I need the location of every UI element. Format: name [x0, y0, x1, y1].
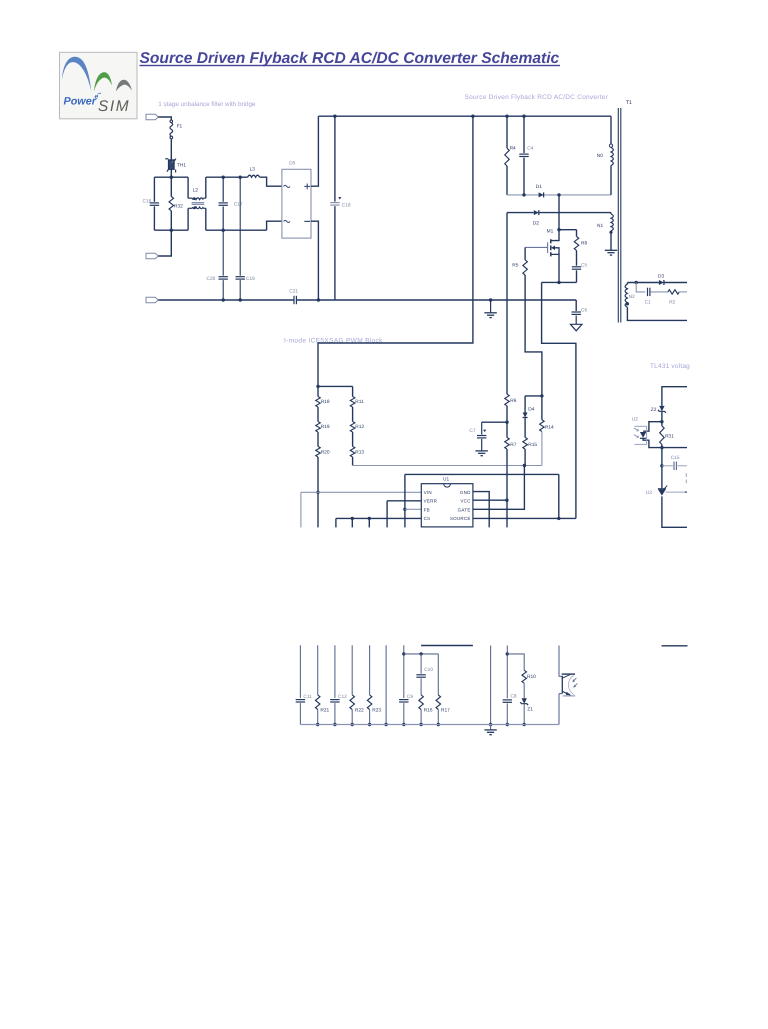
wire left-loop right edge segments — [187, 177, 189, 198]
svg-text:R11: R11 — [355, 399, 364, 405]
node C4 bottom — [522, 193, 525, 196]
wire R31 node clipped right — [662, 447, 687, 449]
node R4 top — [505, 115, 508, 118]
svg-text:SOURCE: SOURCE — [450, 516, 471, 521]
wire earth rail left of C21 — [158, 299, 293, 301]
wire C20 column — [222, 230, 224, 276]
svg-text:N1: N1 — [597, 223, 603, 229]
svg-text:D5: D5 — [289, 160, 295, 166]
svg-text:R13: R13 — [355, 450, 364, 456]
node bottom ground — [489, 723, 492, 726]
node divider top — [316, 385, 319, 388]
wire C20 to earth rail — [222, 280, 224, 300]
svg-text:R17: R17 — [441, 707, 450, 713]
wire earth rail right of C21 — [297, 299, 577, 301]
svg-text:CS: CS — [424, 516, 431, 521]
wire R2 clipped — [679, 291, 687, 293]
svg-text:1 stage unbalance filter with: 1 stage unbalance filter with bridge — [158, 101, 256, 108]
wire D4 top link — [525, 395, 542, 397]
wire left-loop top rail — [154, 176, 188, 178]
wire column GND to rail — [490, 646, 492, 725]
svg-text:C12: C12 — [338, 694, 347, 700]
shunt regulator U3 TL431 — [658, 488, 666, 490]
svg-text:C1: C1 — [645, 300, 651, 306]
wire VIN net left drop — [300, 492, 302, 527]
svg-text:M1: M1 — [547, 228, 554, 234]
wire bottom rail — [300, 724, 559, 726]
wire VIN net horizontal — [301, 491, 421, 493]
svg-text:U2: U2 — [632, 417, 638, 423]
capacitor C20 — [219, 276, 228, 278]
resistor R31 — [661, 422, 663, 426]
wire GATE pin — [473, 466, 525, 510]
svg-text:R16: R16 — [424, 707, 433, 713]
zener Z1 — [522, 698, 527, 703]
capacitor C12 — [330, 699, 339, 701]
wire GND pin — [473, 492, 489, 528]
optocoupler U4 transistor side — [558, 646, 560, 677]
svg-text:D1: D1 — [536, 184, 542, 190]
svg-text:GND: GND — [460, 490, 471, 495]
node C4 top — [522, 115, 525, 118]
ground symbol C7 — [476, 450, 488, 452]
svg-text:VERR: VERR — [424, 499, 438, 504]
svg-text:VIN: VIN — [424, 490, 432, 495]
svg-text:R8: R8 — [581, 241, 587, 247]
svg-text:D3: D3 — [658, 274, 664, 280]
phase dot N2 — [626, 302, 629, 305]
svg-text:GATE: GATE — [458, 507, 471, 512]
node C17 top — [222, 176, 225, 179]
node L3 left — [239, 176, 242, 179]
wire bridge plus output to top rail — [311, 116, 318, 186]
capacitor C8 — [503, 699, 512, 701]
gate lead wire — [525, 246, 548, 248]
svg-text:U3: U3 — [646, 490, 652, 496]
wire SOURCE pin — [473, 517, 576, 519]
capacitor C6 — [572, 311, 581, 313]
capacitor C5 — [576, 250, 578, 265]
svg-text:C15: C15 — [671, 455, 680, 461]
wire C19 to earth rail — [239, 280, 241, 300]
winding N2 — [626, 283, 628, 285]
resistor R32 — [170, 177, 172, 196]
wire snubber branch — [636, 283, 645, 292]
ground symbol primary — [490, 300, 492, 313]
resistor R5 gate — [524, 247, 526, 259]
resistor R2 — [668, 290, 679, 294]
node C7 junction — [505, 421, 508, 424]
wire U3 ref clipped — [666, 491, 686, 493]
clipped component marks — [685, 473, 687, 483]
node C10 top — [419, 652, 422, 655]
inductor L3 — [248, 175, 260, 177]
connector J2 neutral input — [146, 253, 158, 259]
wire R20 to VIN node — [317, 457, 319, 492]
wire left-loop bottom rail — [154, 229, 188, 231]
svg-text:TL431 voltag: TL431 voltag — [650, 363, 690, 370]
node ground stub on earth rail — [489, 298, 492, 301]
node on SOURCE wire — [557, 517, 560, 520]
svg-text:C4: C4 — [527, 145, 533, 151]
node filter bottom-left — [170, 229, 173, 232]
resistor R4 — [506, 116, 508, 148]
capacitor C21 in series — [293, 296, 295, 304]
wire bridge minus output to earth rail — [311, 221, 318, 300]
resistor R17 — [437, 654, 439, 695]
wire down to C15 node — [661, 448, 663, 489]
svg-text:C10: C10 — [424, 667, 433, 673]
capacitor C15 — [662, 465, 673, 467]
title underline — [140, 65, 561, 66]
svg-text:C5: C5 — [581, 263, 587, 269]
resistor R22 — [350, 695, 355, 710]
dark link wire above bottom section — [421, 645, 473, 647]
resistor R6 — [505, 394, 510, 406]
svg-text:U1: U1 — [443, 477, 449, 483]
zener Z2 — [659, 406, 664, 411]
wire DC top rail — [318, 115, 611, 117]
ground symbol bottom — [490, 725, 492, 730]
wire FB right drop to source rail — [558, 474, 560, 518]
capacitor C7 — [481, 422, 483, 434]
svg-text:D2: D2 — [533, 220, 539, 226]
svg-text:R18: R18 — [321, 399, 330, 405]
node FB — [403, 508, 406, 511]
resistor R14 — [541, 396, 543, 420]
capacitor C9 — [399, 699, 408, 701]
resistor R11 — [352, 386, 354, 396]
resistor R13 — [352, 432, 354, 446]
svg-text:N2: N2 — [629, 294, 635, 300]
resistor R21 — [315, 695, 320, 710]
node C15 — [660, 464, 663, 467]
wire J1 to F1 — [158, 117, 171, 120]
wire TL431 top clipped — [662, 387, 687, 406]
logo box PowerEsim — [60, 52, 138, 119]
svg-text:C11: C11 — [303, 694, 312, 700]
svg-text:C21: C21 — [289, 289, 298, 295]
capacitor C1 — [647, 288, 649, 296]
resistor R15 — [524, 418, 526, 437]
wire right-loop bottom rail — [206, 229, 267, 231]
fuse F1 — [170, 120, 173, 123]
capacitor C16 — [150, 202, 159, 204]
logo gray arc — [116, 80, 132, 92]
wire column R22 — [351, 645, 353, 695]
wire source node horizontal — [542, 281, 577, 283]
svg-text:R31: R31 — [665, 434, 674, 440]
svg-text:R6: R6 — [510, 398, 516, 404]
thermistor TH1 — [169, 160, 175, 169]
diode D3 — [659, 280, 664, 285]
node M1 source — [557, 281, 560, 284]
wire drain vertical — [558, 195, 560, 230]
PWM controller U1 — [421, 484, 473, 527]
resistor R19 — [317, 407, 319, 422]
svg-text:R2: R2 — [669, 300, 675, 306]
wire J2 to left loop — [158, 230, 171, 256]
node CS col2 — [368, 517, 371, 520]
node C18 top — [333, 115, 336, 118]
node drain feed on clamp rail — [557, 193, 560, 196]
svg-text:R32: R32 — [174, 204, 183, 210]
mosfet M1 — [551, 230, 559, 241]
node VCC — [505, 499, 508, 502]
svg-text:N0: N0 — [597, 153, 603, 159]
connector J1 line input — [146, 114, 158, 120]
svg-text:T1: T1 — [626, 100, 632, 106]
svg-text:C8: C8 — [510, 693, 516, 699]
node filter top-left — [170, 176, 173, 179]
svg-text:R10: R10 — [527, 674, 536, 680]
wire D2 anode from R6 column — [507, 212, 534, 214]
winding N1 — [610, 213, 612, 214]
wire bridge ac2 — [267, 221, 282, 230]
capacitor C4 — [523, 116, 525, 153]
resistor R16 — [420, 678, 422, 695]
wire earth rail corner down to C6 — [575, 300, 577, 311]
node Z2 bottom — [660, 420, 663, 423]
ground symbol N1 — [605, 249, 617, 251]
wire clipped link top right of bottom section — [662, 645, 688, 647]
svg-text:TH1: TH1 — [177, 162, 186, 168]
capacitor C17 — [222, 177, 224, 202]
wire column VCC/C8 — [506, 646, 508, 699]
wire left-loop left edge upper — [153, 177, 155, 202]
wire R15 to feedback rail — [524, 449, 526, 465]
svg-text:D4: D4 — [528, 406, 534, 412]
svg-text:Z1: Z1 — [527, 707, 533, 713]
wire VIN feed from top rail — [318, 116, 473, 386]
wire left-loop left edge lower — [153, 206, 155, 230]
wire column R21 — [317, 645, 319, 695]
wire R20 column continues to gap — [317, 492, 319, 527]
transformer T1 core — [617, 108, 619, 323]
resistor R23 — [367, 695, 372, 710]
wire C10 R17 header — [404, 653, 439, 655]
wire column R23 — [369, 645, 371, 695]
wire feedback rail y465 — [353, 465, 542, 467]
svg-text:SIM: SIM — [98, 98, 130, 115]
wire F1 to TH1 — [170, 139, 172, 160]
svg-text:R4: R4 — [510, 145, 516, 151]
capacitor C10 — [420, 654, 422, 674]
wire column C12 — [334, 645, 336, 698]
svg-text:C7: C7 — [469, 428, 475, 434]
wire C1 to R2 — [650, 291, 668, 293]
winding N0 — [610, 116, 612, 147]
wire VCC pin — [473, 499, 507, 501]
node C8 top — [506, 652, 509, 655]
common-mode choke L2 — [188, 197, 192, 199]
svg-text:C19: C19 — [246, 276, 255, 282]
svg-text:L3: L3 — [250, 166, 256, 172]
wire source down-jog to feedback column — [542, 282, 576, 518]
svg-text:R12: R12 — [355, 424, 364, 430]
wire TH1 to node — [170, 169, 172, 177]
resistor R12 — [352, 407, 354, 422]
wire R5 bottom jog to D4 node — [525, 275, 542, 396]
diode D2 — [534, 210, 539, 215]
diode D1 — [539, 192, 544, 197]
diode D4 — [524, 396, 526, 413]
wire right-loop left edge — [205, 177, 207, 198]
wire drain node to R8 — [559, 229, 577, 231]
wire D3 cathode clipped — [665, 282, 688, 284]
resistor R10 — [522, 670, 527, 683]
svg-text:C20: C20 — [207, 276, 216, 282]
svg-text:Source Driven Flyback RCD AC/D: Source Driven Flyback RCD AC/DC Converte… — [140, 50, 560, 67]
node C20 top — [222, 229, 225, 232]
svg-text:R23: R23 — [372, 707, 381, 713]
wire column C9 — [403, 645, 405, 698]
wire R14 to feedback rail — [541, 432, 543, 466]
svg-text:F1: F1 — [177, 124, 183, 130]
wire N2 top to D3 — [627, 282, 659, 284]
svg-text:L2: L2 — [193, 187, 199, 193]
connector J3 earth — [146, 297, 158, 303]
svg-text:C18: C18 — [342, 202, 351, 208]
node R15 bottom on feedback rail — [523, 464, 526, 467]
node VIN — [316, 491, 319, 494]
svg-text:Power: Power — [64, 96, 97, 108]
svg-text:Z2: Z2 — [651, 407, 657, 413]
svg-text:Source Driven Flyback RCD AC/D: Source Driven Flyback RCD AC/DC Converte… — [465, 94, 609, 101]
wire column VERR to rail — [385, 645, 387, 724]
wire C7 horizontal — [482, 421, 507, 423]
svg-text:R5: R5 — [512, 263, 518, 269]
wire column C11 — [299, 645, 301, 698]
wire Z2 to node — [661, 411, 663, 421]
wire N1 to ground — [610, 231, 612, 251]
wire N2 bottom return — [627, 307, 687, 320]
svg-text:C9: C9 — [407, 694, 413, 700]
wire R6 to node — [506, 406, 508, 422]
optocoupler U2 LED side — [643, 422, 662, 432]
wire C19 column — [239, 177, 241, 276]
wire divider top to R11 — [318, 385, 353, 387]
wire right-loop top rail — [206, 176, 240, 178]
wire C8 to R10 branch — [507, 654, 524, 670]
node snubber tap — [635, 281, 638, 284]
wire C6 to ground triangle — [575, 316, 577, 325]
node CS col1 — [351, 517, 354, 520]
svg-text:R21: R21 — [320, 707, 329, 713]
node C9 top — [402, 652, 405, 655]
svg-text:C17: C17 — [234, 202, 243, 208]
wire FB pin — [405, 508, 421, 510]
svg-text:FB: FB — [424, 507, 430, 512]
resistor R18 — [317, 386, 319, 396]
logo green arc — [94, 72, 112, 91]
svg-text:R7: R7 — [510, 442, 516, 448]
resistor R8 drain-source snubber — [576, 230, 578, 237]
bridge rectifier D5 — [282, 169, 311, 238]
svg-text:R22: R22 — [355, 707, 364, 713]
svg-text:R15: R15 — [528, 442, 537, 448]
capacitor C18 electrolytic — [334, 116, 336, 201]
wire clamp rail y195 — [507, 194, 539, 196]
wire CS — [336, 517, 421, 519]
wire U3 cathode down and clipped bottom — [662, 496, 687, 527]
node D4 top — [540, 394, 543, 397]
node M1 drain — [557, 228, 560, 231]
wire R7 to VCC node and gap — [506, 449, 508, 527]
capacitor C19 — [236, 276, 245, 278]
resistor R20 — [317, 432, 319, 446]
phase dot N1 — [609, 231, 612, 234]
svg-text:R14: R14 — [545, 424, 554, 430]
node R31 bottom — [660, 446, 663, 449]
node VIN feed top — [471, 115, 474, 118]
svg-text:R19: R19 — [321, 424, 330, 430]
wire R6 column from D2 anode — [506, 213, 508, 395]
wire FB jog upper — [405, 473, 559, 475]
svg-text:R20: R20 — [321, 450, 330, 456]
wire R10 to Z1 — [523, 683, 525, 698]
svg-text:C16: C16 — [143, 198, 152, 204]
wire L3 to bridge ac1 — [240, 176, 247, 178]
capacitor C11 — [296, 699, 305, 701]
svg-text:VCC: VCC — [460, 499, 471, 504]
svg-text:C6: C6 — [581, 308, 587, 314]
wire VERR — [387, 500, 421, 502]
logo blue arc — [62, 57, 91, 92]
ground triangle C6 — [570, 324, 582, 331]
wire R13 bottom to feedback rail — [352, 457, 354, 466]
resistor R7 — [506, 422, 508, 437]
wire D2 cathode to winding N1 — [539, 212, 611, 214]
